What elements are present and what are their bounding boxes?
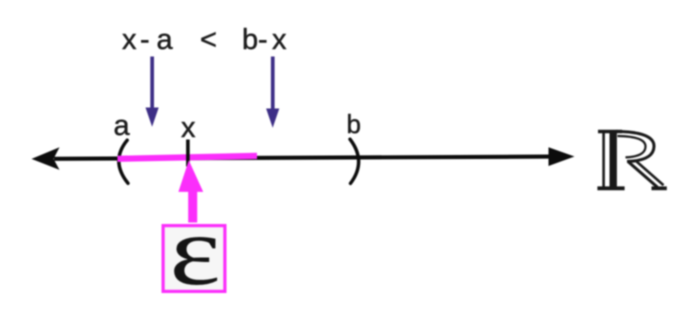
top serif bbox=[598, 130, 622, 133]
main stem (solid) bbox=[610, 131, 617, 188]
label "b - x" bbox=[242, 26, 258, 55]
label a bbox=[114, 112, 130, 141]
close paren at b bbox=[350, 139, 359, 183]
label x bbox=[181, 114, 196, 143]
leg foot serif bbox=[652, 186, 667, 190]
number line bbox=[54, 157, 550, 159]
label b bbox=[347, 111, 361, 137]
epsilon glyph bbox=[146, 201, 244, 301]
label "<" bbox=[200, 26, 217, 55]
double-struck R bbox=[597, 131, 666, 188]
right arrowhead bbox=[549, 147, 575, 166]
tick at x bbox=[186, 140, 190, 167]
bowl inner bbox=[618, 136, 646, 157]
leg inner bbox=[636, 161, 664, 185]
label "x - a" bbox=[122, 26, 137, 55]
left arrowhead (barbed) bbox=[32, 147, 60, 170]
down arrow left (x-a) bbox=[146, 57, 159, 127]
bowl outer bbox=[616, 131, 654, 161]
leg outer bbox=[628, 162, 658, 188]
bottom serif bbox=[597, 186, 624, 190]
magenta up arrow bbox=[178, 160, 203, 222]
magenta interval segment bbox=[118, 156, 258, 159]
down arrow right (b-x) bbox=[266, 57, 279, 128]
epsilon box bbox=[163, 226, 225, 292]
open paren at a bbox=[119, 140, 128, 183]
thin left stroke bbox=[602, 132, 605, 187]
